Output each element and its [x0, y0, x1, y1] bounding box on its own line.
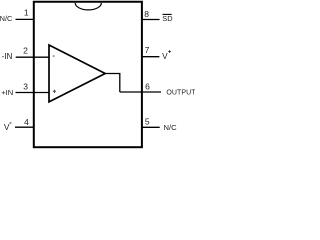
svg-text:N/C: N/C [0, 14, 13, 23]
svg-text:6: 6 [145, 82, 150, 92]
svg-text:SD: SD [162, 14, 172, 23]
svg-text:7: 7 [145, 45, 150, 55]
svg-text:-IN: -IN [2, 52, 13, 61]
svg-text:5: 5 [145, 117, 150, 127]
svg-text:N/C: N/C [164, 123, 178, 132]
svg-text:+IN: +IN [1, 88, 13, 97]
svg-text:V: V [4, 122, 10, 132]
svg-text:OUTPUT: OUTPUT [166, 90, 195, 97]
svg-text:V: V [162, 52, 168, 61]
svg-text:2: 2 [23, 46, 28, 56]
svg-text:4: 4 [24, 117, 29, 127]
svg-text:3: 3 [23, 82, 28, 92]
svg-text:8: 8 [144, 9, 149, 19]
svg-text:1: 1 [24, 8, 29, 18]
